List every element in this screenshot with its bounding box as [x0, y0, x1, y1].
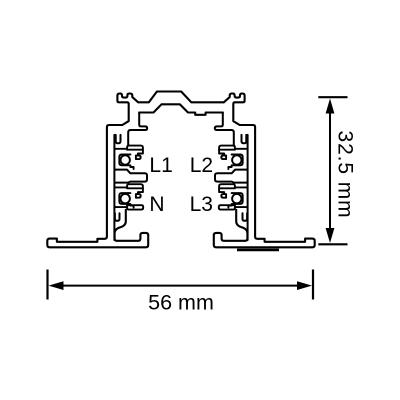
conductor housing L2 chamber [228, 155, 242, 170]
svg-text:N: N [149, 193, 164, 216]
conductor housing N upper attach line [114, 186, 127, 188]
conductor housing L3 upper arm hook [219, 188, 224, 194]
horizontal dimension right arrowhead [297, 281, 312, 290]
conductor housing L3 lower attach line [235, 206, 248, 208]
conductor housing L1 chamber [119, 155, 133, 170]
conductor N contact circle [121, 194, 130, 203]
conductor housing N lower arm [127, 205, 143, 209]
left wall lower slot [115, 213, 120, 221]
vertical dimension line [329, 105, 331, 237]
left divider tab between pockets [115, 170, 148, 183]
conductor housing N upper arm hook [138, 188, 143, 194]
conductor L2 contact circle [232, 155, 241, 164]
horizontal dimension right tick [312, 270, 314, 300]
conductor housing L1 upper arm hook [138, 150, 143, 156]
conductor housing L3 lower arm [219, 205, 235, 209]
conductor housing L3 upper attach line [235, 186, 248, 188]
right wall lower slot [243, 213, 248, 221]
left wall upper slot [116, 135, 121, 143]
vertical dimension upper arrowhead [326, 99, 335, 114]
conductor housing L2 upper arm hook [219, 150, 224, 156]
right interior locking flag [215, 113, 234, 146]
svg-text:L1: L1 [149, 154, 172, 177]
conductor housing N upper arm [127, 184, 143, 188]
conductor housing L2 upper arm [219, 146, 235, 150]
conductor housing N lower attach line [114, 206, 127, 208]
left side inner wall [113, 135, 115, 240]
conductor L1 contact circle [121, 155, 130, 164]
vertical dimension lower arrowhead [326, 228, 335, 243]
right divider tab between pockets [215, 170, 248, 183]
horizontal dimension left tick [46, 270, 48, 300]
right side inner wall [247, 135, 249, 240]
horizontal dimension line [55, 285, 306, 287]
conductor housing L3 chamber [228, 193, 242, 208]
conductor housing N chamber [119, 193, 133, 208]
vertical dimension top tick [318, 96, 347, 98]
horizontal dimension left arrowhead [49, 281, 64, 290]
svg-text:L3: L3 [190, 193, 213, 216]
svg-text:32.5 mm: 32.5 mm [334, 131, 357, 219]
svg-text:L2: L2 [190, 154, 213, 177]
conductor housing L2 middle tab [221, 156, 226, 160]
conductor housing L3 middle tab [221, 194, 226, 198]
roof inner wall line with hump and locking notch [139, 104, 223, 115]
svg-text:56 mm: 56 mm [148, 290, 214, 314]
conductor housing N middle tab [136, 194, 141, 198]
thick bottom edge under right flange [237, 249, 279, 252]
track profile outer contour right half [214, 94, 315, 248]
right wall upper slot [242, 135, 247, 143]
conductor housing L1 upper arm [127, 146, 143, 150]
vertical dimension bottom tick [318, 243, 347, 245]
conductor housing L3 upper arm [219, 184, 235, 188]
track profile outer contour left half with ears and roof hump [47, 92, 224, 248]
left interior locking flag [128, 113, 147, 146]
conductor housing L1 upper attach line [114, 148, 127, 150]
conductor housing L2 upper attach line [235, 148, 248, 150]
conductor housing L1 middle tab [136, 156, 141, 160]
conductor L3 contact circle [232, 194, 241, 203]
